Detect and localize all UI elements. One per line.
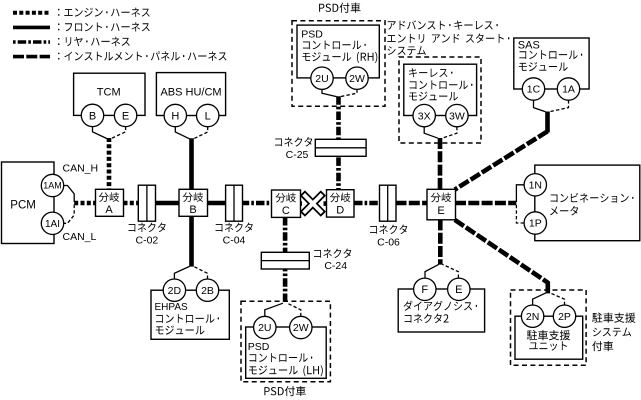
- legend text instrument panel harness: [58, 51, 227, 60]
- branch box B: [179, 189, 208, 216]
- pigtail EHPAS 2B (dashed): [194, 266, 208, 279]
- legend text front harness: [58, 22, 150, 31]
- svg-text:E: E: [437, 205, 444, 217]
- module combination meter box: [535, 165, 640, 241]
- module parking assist unit box: [515, 316, 583, 359]
- pin E of diagnosis: [448, 278, 470, 300]
- module SAS box: [514, 38, 589, 89]
- pin H of ABS: [164, 104, 186, 126]
- label EHPAS module line3: [156, 326, 205, 335]
- svg-text:E: E: [122, 110, 129, 122]
- connector C-25 symbol: [315, 139, 366, 156]
- pin 2P of parking unit: [553, 305, 575, 327]
- legend instrument panel harness sample: [13, 55, 50, 59]
- svg-text:2N: 2N: [526, 311, 539, 323]
- svg-text:A: A: [105, 204, 113, 216]
- svg-text:D: D: [336, 205, 344, 217]
- label meter line2: [550, 206, 578, 216]
- label connector C-06 katakana: [370, 225, 407, 235]
- wire parking elbow vertical: [545, 281, 550, 293]
- label keyless module line1: [409, 68, 452, 77]
- label PSD LH line3: [249, 365, 323, 376]
- svg-text:EHPAS: EHPAS: [155, 302, 188, 313]
- wire branch B to EHPAS (front harness): [189, 216, 194, 267]
- svg-text:C-25: C-25: [286, 149, 309, 161]
- pin 2B of EHPAS: [196, 279, 218, 301]
- label PSD RH line2: [303, 41, 366, 50]
- pigtail diagnosis F (solid): [425, 264, 439, 278]
- pigtail ABS L (dashed): [194, 127, 208, 139]
- label diagnosis line1: [404, 301, 478, 311]
- pin 3X of keyless: [413, 104, 435, 126]
- pin 1A of SAS: [557, 78, 579, 100]
- pin L of ABS: [197, 104, 219, 126]
- label PSD-equipped top: [319, 3, 360, 13]
- label keyless module line3: [409, 92, 458, 101]
- module PSD LH box: [246, 327, 327, 378]
- svg-text:B: B: [89, 110, 96, 122]
- connector C-02 divider: [146, 185, 148, 221]
- svg-text:C-02: C-02: [136, 235, 159, 247]
- svg-text:1AM: 1AM: [43, 181, 62, 191]
- pin E of TCM: [114, 104, 136, 126]
- svg-text:C-24: C-24: [324, 260, 347, 272]
- wire ABS to branch B (front harness): [189, 138, 194, 190]
- pigtail diagnosis E (dashed): [443, 264, 459, 278]
- pin 2U of PSD LH: [254, 316, 276, 338]
- label advanced keyless line2: [387, 33, 509, 43]
- pigtail parking 2N (solid): [533, 293, 546, 305]
- pin 1AI of PCM: [41, 212, 63, 234]
- svg-text:2B: 2B: [201, 285, 214, 297]
- connector C-06 symbol: [380, 185, 397, 221]
- branch box A: [96, 189, 124, 216]
- label parking unit line1: [527, 330, 570, 340]
- pigtail keyless 3X (solid): [424, 127, 438, 138]
- svg-text:ABS HU/CM: ABS HU/CM: [160, 87, 221, 99]
- pin 2W of PSD LH: [290, 316, 312, 338]
- svg-text:CAN_L: CAN_L: [63, 231, 97, 243]
- pigtail PSD RH 2W (dashed): [341, 89, 358, 96]
- connector C-04 symbol: [226, 185, 243, 221]
- pigtail PSD LH 2U (solid): [265, 303, 283, 316]
- wire branch E down to diagnosis connector (instrument panel harness): [438, 219, 443, 264]
- pigtail meter 1N (solid): [516, 185, 524, 202]
- label branch A kanji: [99, 192, 120, 202]
- wire branch C to PSD LH via C-24 (rear harness): [283, 217, 288, 303]
- wire branch E up to keyless module (instrument panel harness): [438, 138, 443, 190]
- module ABS HU/CM box: [156, 73, 225, 116]
- svg-text:2D: 2D: [168, 285, 182, 297]
- legend front harness sample: [13, 26, 50, 30]
- label connector C-02 katakana: [129, 223, 166, 233]
- pigtail PCM 1AI CAN_L (dashed): [63, 205, 74, 224]
- label meter line1: [551, 193, 634, 203]
- pin 2U of PSD RH: [311, 67, 333, 89]
- connector C-24 symbol: [261, 252, 309, 269]
- label PSD LH line2: [249, 353, 312, 362]
- label EHPAS controller line2: [156, 314, 219, 323]
- svg-text:PSD: PSD: [301, 29, 323, 41]
- svg-text:CAN_H: CAN_H: [63, 163, 99, 175]
- module diagnosis connector box: [398, 289, 484, 332]
- pin 2N of parking unit: [521, 305, 543, 327]
- connector C-02 symbol: [138, 185, 155, 221]
- connector C-04 divider: [233, 185, 235, 221]
- wire PCM to branch A (engine harness): [74, 201, 95, 206]
- wire branch C to joint X stub: [299, 201, 303, 206]
- svg-text:2U: 2U: [315, 73, 328, 85]
- label PSD RH line3: [302, 52, 377, 63]
- pigtail keyless 3W (dashed): [442, 127, 457, 138]
- wire branch E to combination meter (instrument panel harness): [455, 201, 516, 206]
- connector C-06 divider: [387, 185, 389, 221]
- svg-text:F: F: [421, 284, 428, 296]
- label parking system side line1: [592, 313, 635, 323]
- svg-text:C-04: C-04: [223, 235, 246, 247]
- pigtail PSD LH 2W (dashed): [287, 303, 301, 316]
- wire TCM to branch A (engine harness): [107, 138, 112, 190]
- label diagnosis line2: [405, 314, 449, 324]
- pin 2D of EHPAS: [163, 279, 185, 301]
- pin 1C of SAS: [522, 78, 544, 100]
- label branch B kanji: [183, 192, 204, 202]
- svg-text:2P: 2P: [558, 311, 571, 323]
- joint connector X between branch C and D: [302, 193, 323, 214]
- pigtail ABS H (solid): [175, 127, 189, 139]
- label advanced keyless line1: [388, 20, 498, 30]
- module PSD RH box: [297, 25, 379, 78]
- legend rear harness sample: [13, 40, 50, 44]
- wire connector C-02 to branch B (front harness): [155, 201, 179, 206]
- svg-text:2W: 2W: [349, 73, 365, 85]
- svg-text:PCM: PCM: [10, 200, 36, 212]
- label branch D kanji: [330, 193, 351, 203]
- svg-text:2U: 2U: [258, 322, 271, 334]
- label parking system side line2: [593, 328, 631, 337]
- svg-text:B: B: [189, 204, 196, 216]
- svg-text:L: L: [205, 110, 211, 122]
- label SAS line3: [519, 62, 568, 71]
- wire connector C-06 to branch E (instrument panel harness): [396, 201, 428, 206]
- svg-text:1P: 1P: [529, 218, 542, 230]
- module TCM box: [74, 73, 145, 115]
- pigtail SAS 1C (solid): [534, 100, 546, 112]
- label keyless module line2: [410, 80, 473, 89]
- legend text rear harness: [58, 37, 130, 46]
- svg-text:PSD: PSD: [248, 341, 270, 353]
- label parking system side line3: [592, 341, 613, 351]
- wire branch E to parking assist diagonal (instrument panel harness): [455, 220, 548, 283]
- pigtail PCM 1AM CAN_H (solid): [63, 186, 74, 203]
- label connector C-25 katakana: [275, 137, 312, 147]
- module EHPAS box: [151, 290, 229, 339]
- pin 1P of meter: [524, 212, 546, 234]
- label SAS line2: [519, 50, 582, 59]
- svg-text:C-06: C-06: [377, 237, 400, 249]
- svg-text:SAS: SAS: [518, 40, 540, 52]
- svg-text:E: E: [455, 284, 462, 296]
- dashed box PSD LH (PSD-equipped): [241, 301, 330, 382]
- wire joint X to branch D stub: [324, 201, 328, 206]
- label parking unit line2: [529, 341, 567, 350]
- svg-text:TCM: TCM: [97, 87, 121, 99]
- svg-text:1AI: 1AI: [45, 219, 60, 230]
- svg-text:1C: 1C: [527, 84, 541, 96]
- pigtail parking 2P (dashed): [550, 293, 565, 305]
- pin 1AM of PCM: [41, 174, 63, 196]
- label branch E kanji: [431, 193, 452, 203]
- legend text engine harness: [58, 8, 150, 17]
- wire SAS elbow vertical: [545, 112, 550, 133]
- connector C-25 divider: [315, 147, 366, 149]
- pigtail TCM B (solid): [93, 127, 108, 139]
- label PSD-equipped bottom: [264, 386, 305, 396]
- pigtail SAS 1A (dashed): [550, 100, 569, 112]
- svg-text:1N: 1N: [529, 179, 542, 191]
- label connector C-24 katakana: [314, 249, 351, 259]
- branch box C: [272, 190, 301, 217]
- wire connector C-04 to branch C (rear harness): [241, 201, 272, 206]
- pin 1N of meter: [524, 174, 546, 196]
- svg-text:C: C: [282, 205, 290, 217]
- module keyless control module box: [404, 64, 477, 115]
- pin 3W of keyless: [446, 104, 468, 126]
- module PCM box: [2, 162, 55, 244]
- pigtail EHPAS 2D (solid): [174, 266, 189, 279]
- svg-text:3X: 3X: [418, 110, 431, 122]
- pigtail PSD RH 2U (solid): [322, 89, 337, 96]
- svg-text:H: H: [171, 110, 179, 122]
- pigtail TCM E (dashed): [111, 127, 126, 139]
- dashed box PSD RH (PSD-equipped): [292, 21, 385, 107]
- label branch C kanji: [276, 193, 297, 203]
- label connector C-04 katakana: [216, 223, 253, 233]
- wire branch D to PSD RH via C-25 (rear harness): [336, 96, 341, 190]
- branch box E: [427, 189, 456, 220]
- branch box D: [327, 190, 355, 217]
- dashed box parking assist system: [511, 290, 587, 365]
- pin F of diagnosis: [414, 278, 436, 300]
- pigtail meter 1P (dashed): [516, 205, 524, 224]
- wire branch D to connector C-06 (rear harness): [354, 201, 380, 206]
- pin 2W of PSD RH: [346, 67, 368, 89]
- svg-text:1A: 1A: [562, 84, 575, 96]
- svg-text:3W: 3W: [449, 110, 465, 122]
- wire branch E to SAS module diagonal (instrument panel harness): [455, 131, 548, 189]
- wire branch A to connector C-02 (engine harness): [124, 201, 139, 206]
- legend engine harness sample: [13, 11, 50, 15]
- connector C-24 divider: [261, 260, 309, 262]
- wire branch B to connector C-04 (front harness): [207, 201, 226, 206]
- label advanced keyless line3: [388, 46, 426, 55]
- svg-text:2W: 2W: [293, 322, 309, 334]
- dashed box keyless (advanced keyless system): [399, 57, 481, 143]
- pin B of TCM: [81, 104, 103, 126]
